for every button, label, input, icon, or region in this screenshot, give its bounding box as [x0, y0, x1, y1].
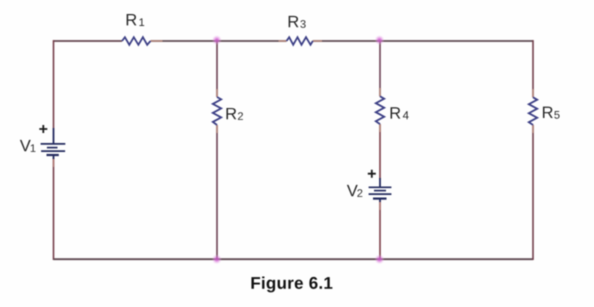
wire: left vertical above V1 — [53, 40, 55, 128]
resistor R5 — [529, 97, 560, 125]
wire: R4 to V2 — [379, 124, 381, 179]
caption Figure 6.1 — [251, 276, 332, 292]
wire: top middle segment (R1 to R3) — [151, 40, 287, 42]
battery V1 — [41, 128, 66, 159]
wire stub R3 right — [313, 40, 322, 42]
wire stub V1 bottom — [53, 159, 55, 168]
wire: left vertical below V1 — [53, 158, 55, 260]
wire stub R3 left — [279, 40, 287, 42]
wire: right vertical above R5 — [532, 40, 534, 97]
wire stub R2 bottom — [216, 125, 218, 133]
plus sign V2 — [368, 170, 376, 178]
wire: bottom rail — [54, 258, 534, 260]
wire stub V2 bottom — [379, 202, 381, 211]
wire: R2 branch lower — [216, 125, 218, 259]
resistor R2 — [213, 97, 243, 125]
wire stub R1 right — [151, 40, 163, 42]
wire stub R4 bottom — [379, 124, 381, 132]
wire: R4 branch upper — [379, 41, 381, 96]
resistor R1 — [122, 14, 151, 45]
junction node at V2 bottom — [375, 254, 385, 264]
junction node at R2 top — [212, 35, 222, 45]
junction node at R4 top — [375, 35, 385, 45]
wire stub R2 top — [216, 89, 218, 97]
wire stub R4 top — [379, 88, 381, 96]
battery V2 — [369, 178, 392, 202]
wire: V2 branch lower — [379, 201, 381, 259]
resistor R3 — [287, 16, 313, 45]
label V2 — [347, 185, 362, 197]
wire stub R5 top — [532, 89, 534, 97]
wire stub R5 bottom — [532, 125, 534, 133]
label V1 — [20, 140, 36, 152]
junction node at R2 bottom — [212, 254, 222, 264]
wire: R2 branch upper — [216, 41, 218, 97]
wire: right vertical below R5 — [532, 125, 534, 260]
plus sign V1 — [39, 125, 47, 133]
resistor R4 — [376, 96, 409, 124]
wire: top left segment (node A to R1) — [54, 40, 123, 42]
wire: top right segment (R3 to top-right corner) — [313, 40, 533, 42]
